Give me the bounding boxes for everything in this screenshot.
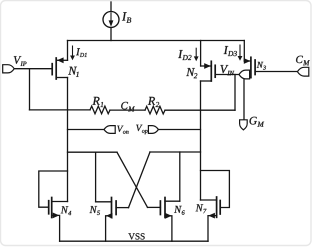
wire: left output leg bbox=[67, 78, 69, 202]
wire: N5 gate lead bbox=[116, 207, 128, 209]
wire: N4 source lead bbox=[52, 215, 60, 241]
label N2 bbox=[186, 68, 197, 78]
arrow ID2 bbox=[196, 48, 197, 58]
wire: N1 gate wire from VIP port bbox=[14, 68, 52, 70]
arrow N4 source bbox=[53, 213, 60, 219]
wire: N5 drain riser bbox=[95, 152, 97, 202]
arrow ID3 bbox=[239, 45, 240, 57]
transistor N5 channel bar bbox=[111, 198, 113, 218]
wire: current source to rail bbox=[110, 28, 112, 41]
transistor N3 channel bar bbox=[250, 57, 252, 77]
wire: N2 gate lead to VIN port bbox=[215, 74, 239, 76]
transistor N7 gate bar bbox=[219, 201, 221, 215]
port VIN bbox=[239, 70, 250, 79]
label ID1 bbox=[76, 48, 87, 57]
wire: top supply rail bbox=[68, 40, 245, 42]
label N1 bbox=[68, 67, 78, 77]
label CM middle bbox=[121, 102, 135, 112]
label ID2 bbox=[178, 50, 191, 60]
arrow ID1 bbox=[72, 46, 73, 57]
wire: right node horizontal bbox=[150, 151, 201, 153]
wire: cross-couple diagonal to N6 gate bbox=[117, 152, 148, 207]
transistor N2 channel bar bbox=[210, 61, 212, 81]
wire: Vop line to right leg bbox=[158, 129, 200, 131]
arrow N1 source bbox=[57, 57, 64, 63]
arrow N2 source bbox=[204, 63, 211, 69]
wire: VIN branch vertical bbox=[234, 75, 236, 111]
label Vop bbox=[136, 125, 147, 134]
wire: N3 gate lead to CM port bbox=[255, 71, 297, 73]
arrow N5 source bbox=[106, 213, 113, 219]
arrow inside current source bbox=[110, 13, 111, 22]
wire: R-line left segment bbox=[30, 109, 91, 111]
wire: N6 drain lead bbox=[165, 200, 180, 202]
transistor N2 gate bar bbox=[214, 65, 216, 77]
label N5 bbox=[90, 206, 101, 215]
wire: N2 source riser bbox=[200, 41, 202, 67]
wire: N7 drain lead bbox=[201, 199, 217, 201]
wire: N6 source lead bbox=[165, 216, 172, 241]
label R2 bbox=[148, 97, 159, 107]
label VSS bbox=[128, 233, 144, 239]
label N4 bbox=[61, 206, 71, 215]
resistor R2 bbox=[145, 106, 165, 114]
transistor N6 channel bar bbox=[164, 198, 166, 218]
label N7 bbox=[196, 204, 207, 213]
transistor N3 gate bar bbox=[254, 60, 256, 75]
wire: N5 drain lead bbox=[96, 201, 112, 203]
wire: N7 source lead bbox=[208, 216, 217, 242]
wire: VSS rail bbox=[60, 240, 208, 242]
resistor R1 bbox=[90, 106, 110, 114]
wire: N3 drain lead drop to GM bbox=[244, 78, 251, 120]
label N3 bbox=[257, 62, 266, 70]
wire: N3 source lead bbox=[244, 60, 251, 62]
transistor N5 gate bar bbox=[115, 201, 117, 215]
transistor N4 gate bar bbox=[48, 201, 50, 214]
wire: N6 gate lead bbox=[148, 206, 161, 208]
wire: stub above current source bbox=[110, 2, 112, 12]
wire: R-line middle segment bbox=[110, 109, 145, 111]
transistor N1 gate bar bbox=[51, 64, 53, 75]
label IB bbox=[122, 12, 131, 22]
wire: N1 drain lead bbox=[56, 77, 67, 79]
label VIN bbox=[220, 65, 234, 75]
label Von bbox=[117, 126, 128, 134]
wire: right output leg bbox=[200, 81, 202, 200]
wire: N1 source lead bbox=[56, 59, 67, 61]
label ID3 bbox=[224, 46, 237, 56]
wire: VIP gate branch down bbox=[29, 69, 31, 110]
transistor N1 channel bar bbox=[55, 58, 57, 79]
port Vop bbox=[148, 126, 158, 134]
wire: N7 gate loop bbox=[201, 171, 230, 208]
wire: cross-couple diagonal to N5 gate bbox=[129, 152, 151, 208]
wire: N6 drain riser bbox=[179, 152, 181, 201]
wire: N4 gate loop bbox=[39, 171, 68, 207]
wire: left node horizontal bbox=[68, 151, 118, 153]
arrow N3 source bbox=[244, 58, 251, 64]
wire: N5 source lead bbox=[106, 216, 112, 241]
arrow N7 source bbox=[208, 213, 215, 219]
current source IB bbox=[103, 12, 119, 28]
wire: R-line right segment bbox=[165, 109, 235, 111]
wire: N1 source riser bbox=[67, 41, 69, 61]
transistor N7 channel bar bbox=[216, 197, 218, 217]
transistor N6 gate bar bbox=[159, 201, 161, 215]
wire: N4 drain lead bbox=[52, 201, 68, 203]
wire: Von line from left leg bbox=[68, 129, 105, 131]
label CM right bbox=[296, 56, 310, 65]
port GM bbox=[240, 120, 248, 130]
wire: N3 source riser bbox=[243, 41, 245, 62]
wire: N2 source lead bbox=[201, 65, 212, 67]
label N6 bbox=[174, 206, 185, 215]
arrow N6 source bbox=[165, 213, 172, 219]
transistor N4 channel bar bbox=[51, 198, 53, 218]
wire: N2 drain lead bbox=[201, 80, 212, 82]
label GM bbox=[250, 117, 265, 127]
port Von bbox=[104, 126, 115, 134]
port VIP bbox=[3, 65, 15, 73]
label R1 bbox=[92, 97, 103, 107]
label VIP bbox=[14, 56, 27, 66]
port CM output bbox=[297, 67, 308, 76]
